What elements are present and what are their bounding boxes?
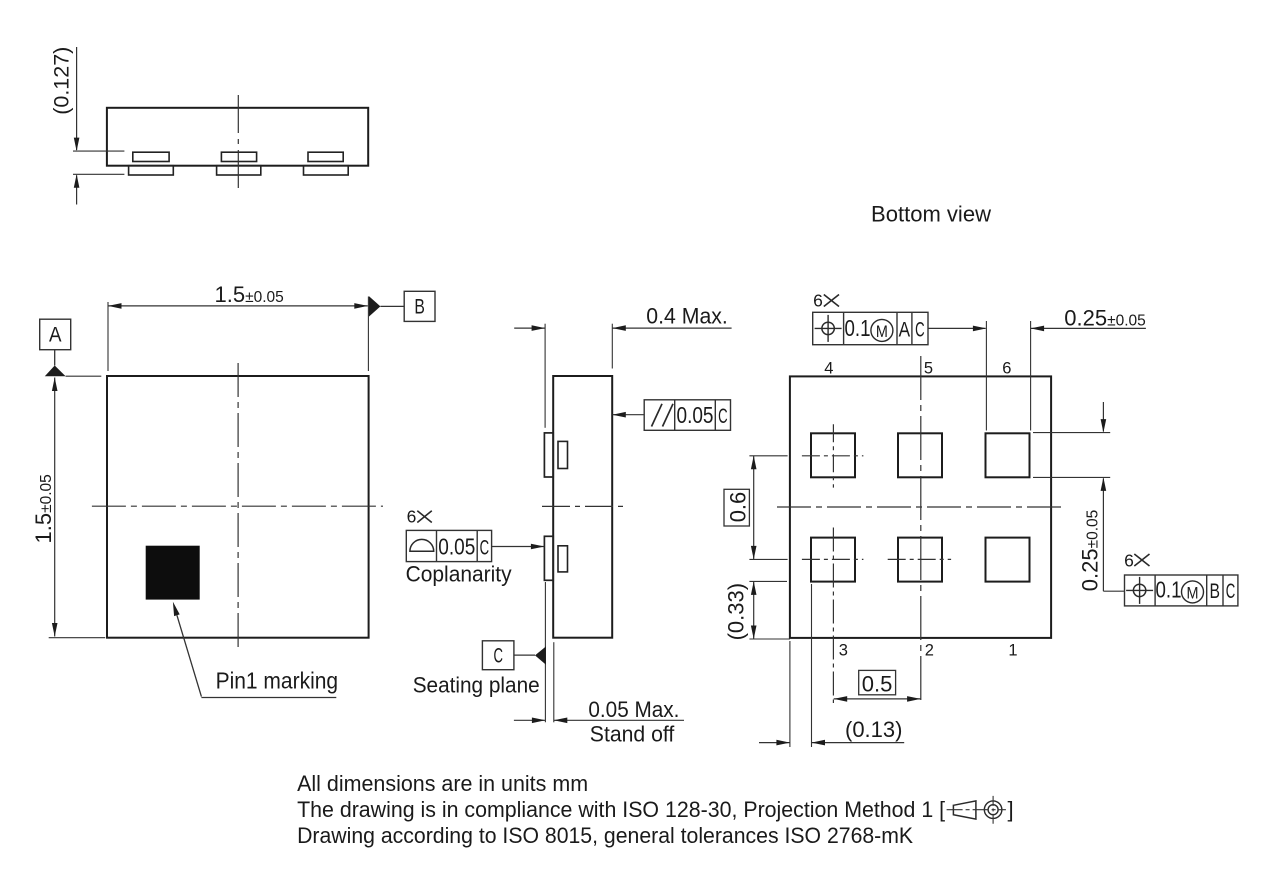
- extension line pad row bottom left (0.6 dim): [749, 558, 787, 560]
- dimension text (0.127) rotated: [50, 47, 74, 115]
- parallelism feature control frame // 0.05 C: [644, 400, 730, 431]
- dimension line 0.5 with arrows: [834, 696, 921, 702]
- svg-text:C: C: [493, 645, 503, 668]
- lower lead bump (side view): [544, 536, 553, 580]
- extension line bottom edge left: [49, 637, 105, 639]
- lead 3 inner (front view): [308, 152, 343, 161]
- svg-text:C: C: [1226, 580, 1236, 603]
- projection symbol horizontal centerline: [947, 809, 1006, 811]
- stand off dimension line with arrows: [514, 718, 684, 724]
- dimension text 0.05 Max.: [588, 697, 679, 722]
- dimension line 0.33 vertical with arrows: [751, 581, 757, 639]
- pad 6: [986, 433, 1030, 477]
- svg-text:0.05 Max.: 0.05 Max.: [588, 697, 679, 722]
- svg-text:0.25±0.05: 0.25±0.05: [1078, 510, 1103, 592]
- dimension 0.6 boxed rotated: [724, 489, 750, 526]
- pad 4 vertical centerline: [832, 424, 834, 487]
- extension line pad6 bottom right: [1033, 476, 1110, 478]
- horizontal centerline (top view): [92, 505, 383, 507]
- upper lead bump (side view): [544, 433, 553, 477]
- svg-text:(0.13): (0.13): [845, 717, 902, 742]
- extension line pad row top left (0.6 dim): [749, 455, 787, 457]
- position feature control frame 0.1 M B C (right): [1125, 575, 1238, 606]
- dimension line 1.5 +-0.05 horizontal: [108, 303, 368, 309]
- svg-text:1.5±0.05: 1.5±0.05: [31, 474, 56, 543]
- package body (top view): [107, 376, 369, 638]
- pin number 5: [924, 360, 933, 378]
- pad 5: [898, 433, 942, 477]
- horizontal centerline (side view): [542, 505, 625, 507]
- note line 1: [297, 771, 588, 796]
- pad 1: [986, 538, 1030, 582]
- extension line pad6 right: [1030, 321, 1032, 431]
- package body (bottom view): [790, 376, 1051, 638]
- svg-text:0.4 Max.: 0.4 Max.: [646, 304, 728, 329]
- svg-text:A: A: [899, 318, 911, 341]
- lower lead inner rect (side view): [558, 546, 568, 572]
- extension line right edge (top dim): [367, 297, 369, 372]
- connector line to right frame: [1103, 590, 1124, 592]
- datum A symbol: [40, 319, 71, 376]
- svg-text:Pin1 marking: Pin1 marking: [216, 668, 339, 694]
- dimension text 0.25+-0.05 top: [1064, 306, 1146, 331]
- svg-text:1.5±0.05: 1.5±0.05: [215, 282, 284, 307]
- svg-text:C: C: [480, 537, 490, 560]
- extension line bottom of pads: [73, 173, 124, 175]
- svg-text:1: 1: [1008, 641, 1017, 659]
- coplanarity count 6x: [407, 507, 432, 527]
- pin number 1: [1008, 641, 1017, 659]
- dimension line 0.13 left part with arrow: [759, 740, 790, 746]
- pad 2: [898, 538, 942, 582]
- svg-text:0.1: 0.1: [845, 315, 871, 341]
- horizontal centerline (bottom view): [777, 506, 1065, 508]
- dimension line 0.6 vertical with arrows: [751, 456, 757, 560]
- dimension text 1.5+-0.05 top: [215, 282, 284, 307]
- pin1 marking label: [216, 668, 339, 694]
- dimension (0.127) upper leg with down arrow: [74, 47, 80, 151]
- svg-text:6: 6: [813, 291, 823, 311]
- dimension 0.5 boxed: [859, 670, 896, 696]
- coplanarity label: [406, 562, 512, 587]
- lead 1 pad (front view): [129, 166, 174, 175]
- vertical centerline (top view): [237, 363, 239, 651]
- projection method symbol circles: [984, 801, 1002, 819]
- extension line seating plane upper: [544, 324, 546, 428]
- svg-text:2: 2: [925, 641, 934, 659]
- pad 2 horizontal centerline: [888, 558, 951, 560]
- body left edge extension line lower: [553, 642, 555, 722]
- svg-text:0.05: 0.05: [438, 534, 475, 560]
- svg-text:0.1: 0.1: [1156, 576, 1182, 602]
- dimension text (0.33) rotated: [724, 583, 749, 640]
- datum C symbol: [482, 641, 546, 670]
- pin number 6: [1002, 360, 1011, 378]
- extension line body bottom left (0.33 dim): [749, 638, 790, 640]
- lead 3 pad (front view): [304, 166, 349, 175]
- coplanarity leader arrow: [492, 544, 545, 550]
- upper lead inner rect (side view): [558, 441, 568, 468]
- dimension text 1.5+-0.05 left rotated: [31, 474, 56, 543]
- lead 1 inner (front view): [133, 152, 169, 161]
- svg-text:B: B: [1210, 580, 1221, 603]
- svg-text:0.05: 0.05: [677, 402, 714, 428]
- svg-text:Seating plane: Seating plane: [413, 673, 540, 698]
- centerline (front view): [237, 95, 239, 192]
- dimension text 0.25+-0.05 right rotated: [1078, 510, 1103, 592]
- svg-text:4: 4: [824, 360, 833, 378]
- pin number 4: [824, 360, 833, 378]
- pad 4: [811, 433, 855, 477]
- svg-text:0.6: 0.6: [725, 492, 750, 523]
- parallelism leader arrow: [612, 412, 644, 418]
- extension line pad6 left: [985, 321, 987, 431]
- coplanarity feature control frame 0.05 C: [406, 530, 491, 561]
- package body (right side view): [553, 376, 612, 638]
- extension line pad3 left bottom (0.13 dim): [811, 584, 813, 747]
- note line 3: [297, 823, 913, 848]
- projection symbol vertical centerline: [992, 796, 994, 824]
- svg-text:Coplanarity: Coplanarity: [406, 562, 512, 587]
- svg-text:(0.33): (0.33): [724, 583, 749, 640]
- pin number 2: [925, 641, 934, 659]
- projection method symbol cone: [953, 801, 976, 819]
- lead 2 inner (front view): [221, 152, 256, 161]
- pad 4 horizontal centerline: [802, 455, 864, 457]
- dimension 0.25 right lower leg with up arrow: [1101, 477, 1107, 591]
- svg-text:]: ]: [1008, 797, 1014, 822]
- svg-text:0.25±0.05: 0.25±0.05: [1064, 306, 1146, 331]
- stand off label: [590, 722, 675, 747]
- lead 2 pad (front view): [217, 166, 261, 175]
- dimension line 0.4 Max left part with arrow: [514, 325, 545, 331]
- svg-text:The drawing is in compliance w: The drawing is in compliance with ISO 12…: [297, 797, 945, 822]
- extension line left edge (top dim): [107, 302, 109, 371]
- extension line pad6 top right: [1033, 432, 1110, 434]
- svg-text:B: B: [414, 296, 425, 319]
- extension line body left bottom (0.13 dim): [789, 641, 791, 747]
- bottom view title: [871, 202, 992, 227]
- position feature control frame 0.1 M A C (top): [813, 312, 928, 344]
- dimension line 1.5 +-0.05 vertical: [52, 378, 58, 637]
- svg-text:C: C: [718, 405, 728, 428]
- svg-text:A: A: [49, 324, 62, 347]
- dimension line 0.25 top with arrow: [1031, 326, 1146, 332]
- seating plane label: [413, 673, 540, 698]
- pin1 marking leader arrow: [173, 602, 336, 698]
- svg-text:M: M: [876, 322, 888, 341]
- position callout right 6x: [1124, 550, 1149, 570]
- dimension line 0.4 Max right part with arrow: [612, 325, 731, 331]
- svg-text:M: M: [1187, 584, 1199, 603]
- svg-text:Drawing according to ISO 8015,: Drawing according to ISO 8015, general t…: [297, 823, 913, 848]
- pad 3 vertical centerline extended: [832, 528, 834, 704]
- package body (front side view): [107, 108, 368, 166]
- svg-text:All dimensions are in units mm: All dimensions are in units mm: [297, 771, 588, 796]
- note line 2 closing bracket: [1008, 797, 1014, 822]
- datum B symbol: [369, 291, 435, 321]
- extension line body right upper: [611, 324, 613, 369]
- dimension (0.127) lower leg with up arrow: [74, 174, 80, 204]
- pad 3: [811, 538, 855, 582]
- position leader arrow (top): [928, 326, 986, 332]
- pin1 marking black square: [146, 546, 200, 600]
- dimension text 0.4 Max.: [646, 304, 728, 329]
- extension line top edge left (A datum): [66, 375, 102, 377]
- svg-text:6: 6: [1124, 550, 1134, 570]
- svg-text:5: 5: [924, 360, 933, 378]
- svg-text:Bottom view: Bottom view: [871, 202, 992, 227]
- svg-text:Stand off: Stand off: [590, 722, 675, 747]
- extension line pad3 bottom left (0.33 dim): [749, 580, 787, 582]
- pad 3 horizontal centerline: [802, 558, 864, 560]
- note line 2: [297, 797, 945, 822]
- svg-text:6: 6: [407, 507, 417, 527]
- dimension line 0.13 right part with arrow: [812, 740, 905, 746]
- dimension text (0.13): [845, 717, 902, 742]
- svg-text:0.5: 0.5: [862, 671, 893, 696]
- svg-text:3: 3: [839, 641, 848, 659]
- svg-text:C: C: [915, 318, 925, 341]
- svg-text:6: 6: [1002, 360, 1011, 378]
- dimension 0.25 right upper leg with down arrow: [1101, 402, 1107, 433]
- pin number 3: [839, 641, 848, 659]
- position callout top 6x: [813, 291, 839, 311]
- svg-text:(0.127): (0.127): [50, 47, 74, 115]
- extension line top of leads: [73, 150, 124, 152]
- vertical centerline column 5-2: [920, 356, 922, 703]
- seating plane extension line lower: [544, 582, 546, 722]
